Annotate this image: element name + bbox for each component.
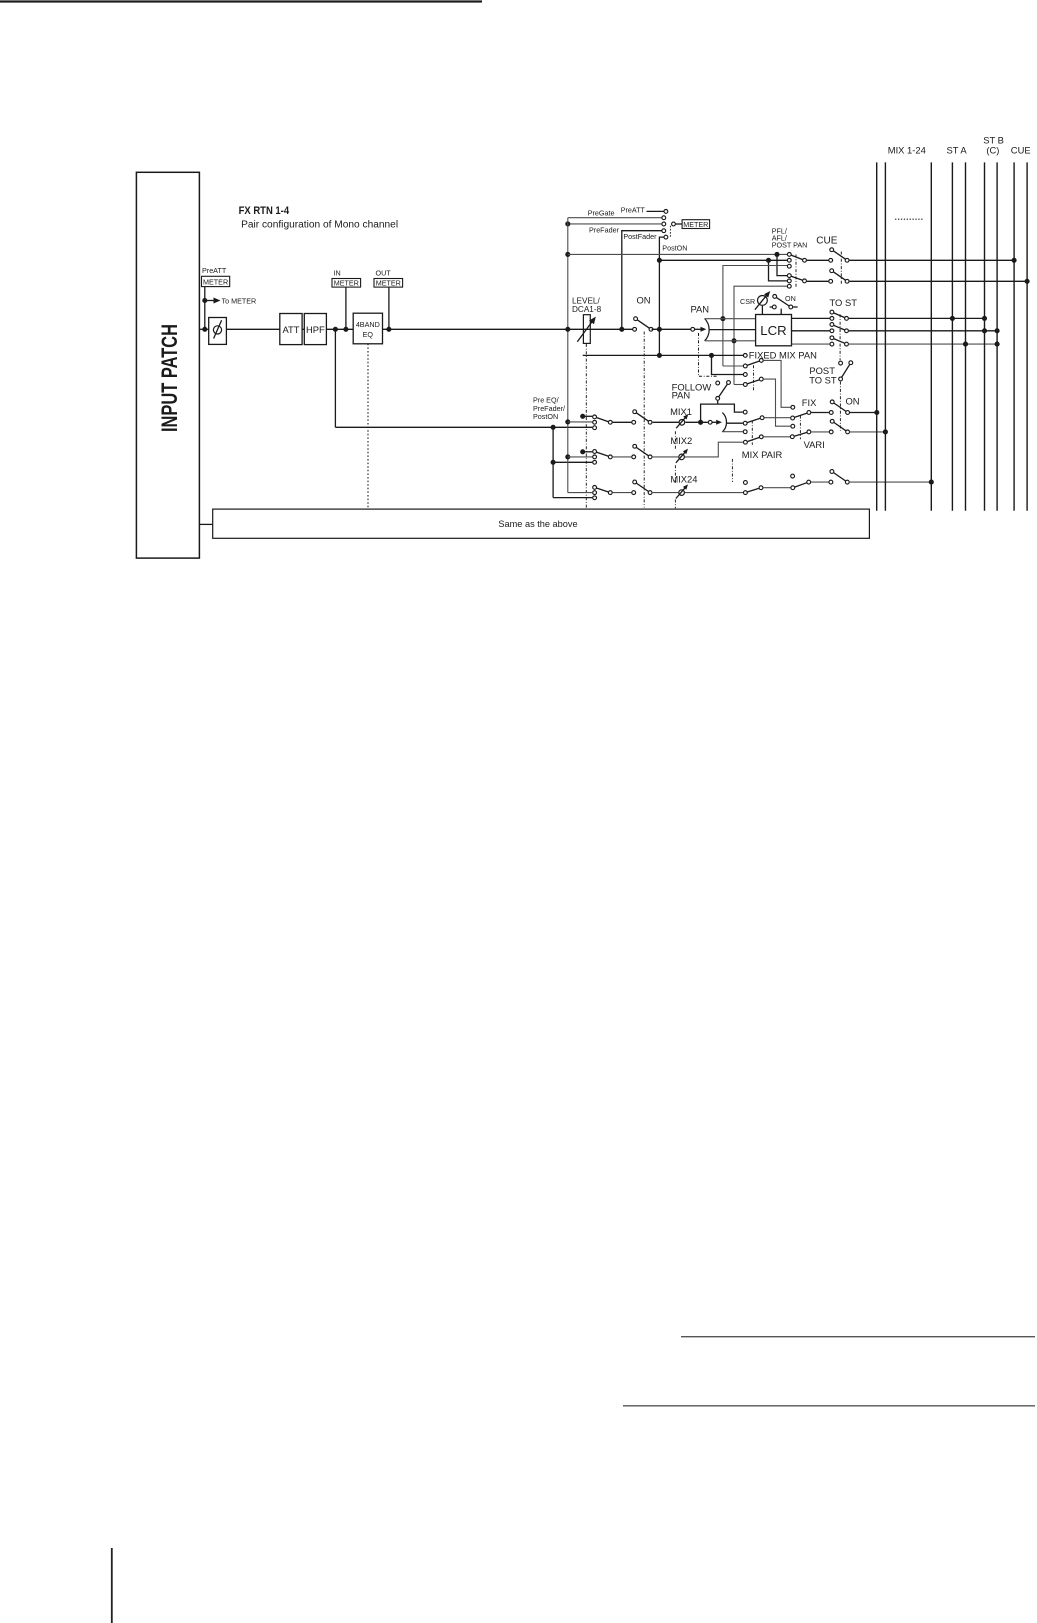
EQ gang dashed xyxy=(367,344,369,509)
wire AFL line xyxy=(659,259,787,261)
mix1 fv arm xyxy=(794,413,807,417)
wire mix1 pan arrow xyxy=(712,420,722,425)
node STA-R xyxy=(963,342,968,347)
label To METER xyxy=(222,296,257,305)
CSR pot xyxy=(755,291,770,310)
mix pair pole lower xyxy=(759,435,763,439)
mix pair pole upper xyxy=(760,416,764,420)
mix24 sel wire xyxy=(613,492,632,494)
wire mix24 to pair xyxy=(685,492,743,494)
svg-text:EQ: EQ xyxy=(363,330,374,339)
post to st arm xyxy=(842,364,850,377)
wire main: patch to phase xyxy=(199,328,208,330)
wire mix2 to pot xyxy=(653,456,679,458)
mix pair gang 2 dotted xyxy=(731,459,733,482)
label PFL/AFL/POST PAN xyxy=(772,226,808,249)
wire CUE upper to bus xyxy=(850,259,1015,261)
svg-text:OUT: OUT xyxy=(376,269,392,278)
wire CSR stem xyxy=(761,306,763,315)
bus line 2 xyxy=(884,162,886,510)
label FIXED MIX PAN xyxy=(749,349,817,360)
mix1 fv gang xyxy=(799,416,801,440)
TO ST pole C xyxy=(845,329,849,333)
node preFader mix1 tap xyxy=(565,419,570,424)
svg-text:METER: METER xyxy=(376,279,401,288)
node to-meter tap xyxy=(202,298,207,303)
svg-text:FIX: FIX xyxy=(802,397,817,408)
svg-text:PostFader: PostFader xyxy=(623,232,657,241)
svg-text:FX RTN 1-4: FX RTN 1-4 xyxy=(239,205,290,217)
METER box 2 xyxy=(682,220,710,229)
mix24 selector xyxy=(593,486,613,500)
mix1 fv pole xyxy=(807,411,811,415)
mix24 pot gang xyxy=(674,500,676,509)
svg-text:PreFader: PreFader xyxy=(589,225,620,234)
svg-text:PAN: PAN xyxy=(672,389,691,400)
PreATT METER box xyxy=(202,276,230,286)
label ST B xyxy=(983,135,1004,146)
METER text 2 xyxy=(683,220,708,229)
svg-text:PostON: PostON xyxy=(662,243,687,252)
OUT METER text xyxy=(376,279,401,288)
label OUT xyxy=(376,269,392,278)
wire mix1 pan out R xyxy=(723,431,743,433)
mix1 fix contact xyxy=(791,405,795,409)
TO ST open C xyxy=(830,323,834,327)
IN METER text xyxy=(334,279,359,288)
wire preEQ column xyxy=(552,427,554,497)
footer rule right 1 xyxy=(681,1336,1035,1338)
label ON xyxy=(637,294,651,305)
mix1 pot xyxy=(676,414,688,428)
wire patch to same box xyxy=(199,523,212,525)
wire preFader to mix1 xyxy=(568,421,593,423)
svg-text:CSR: CSR xyxy=(740,297,755,306)
mix24 pair arm xyxy=(747,488,759,492)
footer rule right 2 xyxy=(623,1405,1035,1407)
wire mix1 to on xyxy=(811,412,829,414)
4BAND EQ box xyxy=(353,313,382,344)
TO ST pole L xyxy=(845,317,849,321)
node patch output xyxy=(202,327,207,332)
label ST A xyxy=(947,144,968,155)
node EQ out xyxy=(386,327,391,332)
mix pair arm upper xyxy=(747,418,760,422)
node mix1 bus xyxy=(874,410,879,415)
label CSR xyxy=(740,297,755,306)
svg-text:ON: ON xyxy=(785,294,796,303)
label VARI xyxy=(804,439,825,450)
wire preEQ to mix2 xyxy=(553,461,592,463)
wire mix24 to on xyxy=(811,481,829,483)
Same as the above text xyxy=(498,519,577,529)
mix2 fix contact xyxy=(791,424,795,428)
svg-text:LCR: LCR xyxy=(760,323,786,338)
wire mix1 to pot xyxy=(653,421,679,423)
svg-text:MIX2: MIX2 xyxy=(670,435,692,446)
mix24 pair contact xyxy=(744,491,748,495)
footer left mark xyxy=(111,1548,113,1623)
wire sel to CUE sw upper xyxy=(807,259,829,261)
label MIX2 xyxy=(670,435,692,446)
svg-text:MIX PAIR: MIX PAIR xyxy=(742,449,783,460)
wire main: ON to PAN xyxy=(652,328,691,330)
fader gang dotted xyxy=(585,344,587,509)
bus line 7 xyxy=(996,162,998,510)
svg-text:To METER: To METER xyxy=(222,296,257,305)
TO ST arm C xyxy=(834,325,845,330)
mix24 fix open xyxy=(791,474,795,478)
wire mix1 bypass xyxy=(701,404,743,422)
wire main: HPF to EQ xyxy=(326,328,353,330)
wire AFL to lower xyxy=(769,260,788,281)
fixed arm lower xyxy=(747,380,759,384)
mix2 pot gang xyxy=(674,465,676,483)
label TO ST xyxy=(830,297,858,308)
node STB-L a xyxy=(982,316,987,321)
mix pair gang dotted xyxy=(751,421,753,445)
CUE gang dotted xyxy=(840,252,842,286)
wire mix2 to bus xyxy=(849,431,885,433)
wire pot to pan xyxy=(685,421,708,423)
fixed arm upper xyxy=(747,361,759,365)
ATT text xyxy=(282,324,299,335)
wire PFL to lower xyxy=(777,254,787,275)
svg-text:ON: ON xyxy=(846,395,860,406)
post to st pole xyxy=(839,377,843,381)
wire mix24 to bus xyxy=(849,481,932,483)
bus line 3 xyxy=(930,162,932,510)
bus dotted continuation xyxy=(895,218,924,220)
node postpanL junction xyxy=(720,316,725,321)
svg-text:METER: METER xyxy=(683,220,708,229)
mix24 pair open xyxy=(744,481,748,485)
svg-text:TO ST: TO ST xyxy=(830,297,858,308)
wire csr ON stub xyxy=(770,306,798,308)
node bus PFL tap xyxy=(565,252,570,257)
bus line 6 xyxy=(984,162,986,510)
node CUE L bus xyxy=(1012,258,1017,263)
wire mix1 to bus xyxy=(849,412,876,414)
mix1 ON switch xyxy=(829,400,849,414)
svg-text:4BAND: 4BAND xyxy=(356,320,380,329)
mix24 pair pole xyxy=(759,486,763,490)
label (C) xyxy=(986,144,999,155)
svg-text:POST PAN: POST PAN xyxy=(772,241,808,250)
post to st gang lower xyxy=(839,382,841,431)
node postON mix1 tap xyxy=(580,414,585,419)
mix2 pot xyxy=(676,449,688,463)
wire main: phase to ATT xyxy=(226,328,279,330)
svg-text:VARI: VARI xyxy=(804,439,825,450)
PAN gang dotted xyxy=(699,333,718,376)
TO ST contact L xyxy=(830,317,834,321)
gray bus preFader xyxy=(567,218,569,493)
wire mix2 to pair xyxy=(685,442,743,457)
wire mix24 to pot xyxy=(653,492,679,494)
follow pan throw xyxy=(727,381,731,385)
wire IN meter drop xyxy=(345,287,347,329)
ON switch xyxy=(633,317,653,331)
mix24 ON switch xyxy=(829,470,849,484)
node PFL branch xyxy=(774,252,779,257)
wire fixed mix pan line xyxy=(583,354,743,356)
svg-text:ST A: ST A xyxy=(947,144,968,155)
follow pan pole xyxy=(716,397,720,401)
mix2 sel wire xyxy=(613,456,632,458)
meter sel pole xyxy=(672,222,676,226)
phase box xyxy=(209,318,227,345)
title FX RTN 1-4 xyxy=(239,205,290,217)
INPUT PATCH label xyxy=(157,324,182,432)
mix1 pan circle xyxy=(708,420,712,424)
node postON drop xyxy=(657,353,662,358)
wire fixed L feed xyxy=(723,365,743,367)
svg-text:PreGate: PreGate xyxy=(588,209,615,218)
svg-text:MIX1: MIX1 xyxy=(670,406,692,417)
TO ST open R xyxy=(830,336,834,340)
wire LCR R out xyxy=(792,343,830,345)
node STA-L xyxy=(950,316,955,321)
svg-text:PAN: PAN xyxy=(691,303,710,314)
IN METER box xyxy=(332,279,361,288)
svg-text:CUE: CUE xyxy=(1011,144,1031,155)
mix pair contact direct xyxy=(744,440,748,444)
wire postON to mix2 xyxy=(583,451,593,453)
svg-text:FIXED MIX PAN: FIXED MIX PAN xyxy=(749,349,817,360)
fixed contact 1 xyxy=(743,364,747,368)
fader rect xyxy=(583,315,590,344)
wire pair out even xyxy=(764,436,790,438)
CUE switch lower xyxy=(829,269,849,283)
label CUE bus xyxy=(1011,144,1031,155)
top rule bar xyxy=(0,0,482,2)
label IN xyxy=(334,269,341,278)
label PAN xyxy=(691,303,710,314)
mix pair contact R xyxy=(743,430,747,434)
wire postON to mix1 xyxy=(583,415,593,417)
svg-text:IN: IN xyxy=(334,269,341,278)
wire fix out odd xyxy=(764,360,791,407)
TO ST contact R xyxy=(830,342,834,346)
wire OUT meter drop xyxy=(388,287,390,329)
mix pair arm lower xyxy=(747,437,759,441)
node mix2 bus xyxy=(883,429,888,434)
label POST TO ST xyxy=(809,365,837,385)
post to st contact xyxy=(839,361,843,365)
wire pan arrow xyxy=(695,327,707,332)
wire preGate line xyxy=(568,217,662,219)
HPF box xyxy=(304,314,326,345)
mix1 sel wire xyxy=(613,421,632,423)
wire pan L to LCR xyxy=(705,318,756,320)
svg-text:METER: METER xyxy=(203,278,228,287)
wire preFader pickup xyxy=(622,231,662,330)
follow pan contact xyxy=(716,381,720,385)
node postON mix2 tap xyxy=(580,449,585,454)
mix24 pre switch xyxy=(632,480,652,494)
CUE switch upper xyxy=(829,248,849,262)
node meter common tap xyxy=(565,221,570,226)
label MIX PAIR xyxy=(742,449,783,460)
svg-text:PreATT: PreATT xyxy=(621,205,646,214)
wire mix2 to on xyxy=(811,431,829,433)
mix2 fv pole xyxy=(807,430,811,434)
PFL selector upper xyxy=(787,253,806,269)
mix2 pre switch xyxy=(632,444,652,458)
svg-text:PreATT: PreATT xyxy=(202,266,227,275)
wire ST R row xyxy=(849,343,997,345)
svg-text:(C): (C) xyxy=(986,144,999,155)
wire preEQ drop xyxy=(334,329,336,427)
mix1 vari contact xyxy=(791,416,795,420)
wire preEQ feed xyxy=(335,426,592,428)
node postpanR junction xyxy=(731,338,736,343)
wire fix out even xyxy=(764,379,791,426)
mix1 pot gang xyxy=(674,431,676,450)
TO ST open L xyxy=(830,310,834,314)
node mix1 bypass tap xyxy=(698,420,703,425)
TO ST arm R xyxy=(834,339,845,344)
LCR text xyxy=(760,323,786,338)
ATT box xyxy=(280,314,302,345)
wire csr ON tick xyxy=(780,309,782,315)
mix pair contact byp xyxy=(743,410,747,414)
node postON AFL tap xyxy=(657,258,662,263)
phase symbol xyxy=(213,320,221,338)
node IN meter tap xyxy=(343,327,348,332)
csr ON arm xyxy=(776,297,789,306)
wire mix24 pair out xyxy=(763,487,790,489)
wire postpanL line xyxy=(723,266,787,367)
wire ST L row xyxy=(849,317,985,319)
meter sel contact PreFader xyxy=(662,229,666,233)
svg-text:MIX24: MIX24 xyxy=(670,474,697,485)
svg-text:MIX 1-24: MIX 1-24 xyxy=(888,144,926,155)
svg-text:METER: METER xyxy=(334,279,359,288)
wire fixed R feed xyxy=(734,384,743,386)
bus line 4 xyxy=(951,162,953,510)
node postON main tap xyxy=(657,327,662,332)
svg-text:TO ST: TO ST xyxy=(809,375,837,386)
node STB-L b xyxy=(982,328,987,333)
node preEQ branch mix2 xyxy=(551,460,556,465)
wire follow pan stem xyxy=(717,401,719,404)
csr ON circle B xyxy=(789,305,793,309)
node STB-R b xyxy=(995,342,1000,347)
csr ON circle A xyxy=(773,295,777,299)
PAN input circle xyxy=(691,327,695,331)
post to st throw xyxy=(849,361,853,365)
node mix24 bus xyxy=(929,480,934,485)
node preFader mix2 tap xyxy=(565,454,570,459)
fixed contact 3 xyxy=(743,383,747,387)
OUT METER box xyxy=(374,279,403,288)
wire CUE lower to bus xyxy=(850,280,1028,282)
mix2 vari contact xyxy=(790,435,794,439)
label FOLLOW PAN xyxy=(672,381,712,400)
wire postFader pickup xyxy=(659,237,663,355)
mix2 fv arm xyxy=(794,432,807,436)
node CUE R bus xyxy=(1025,279,1030,284)
Same as the above box xyxy=(213,509,870,538)
bus line 8 xyxy=(1013,162,1015,510)
node fixed branch xyxy=(709,353,714,358)
mix24 fv arm xyxy=(795,483,807,487)
wire PFL line xyxy=(568,253,787,255)
wire LCR L out xyxy=(792,317,830,319)
mix24 fv pole xyxy=(807,480,811,484)
label PreATT2 xyxy=(621,205,646,214)
label MIX24 xyxy=(670,474,697,485)
meter sel contact PreGate xyxy=(662,216,666,220)
TO ST arm L xyxy=(834,313,845,318)
wire pan R to LCR xyxy=(705,340,756,342)
bus line 1 xyxy=(876,162,878,510)
wire ATT-HPF xyxy=(302,328,304,330)
HPF text xyxy=(306,324,325,335)
PFL gang dotted xyxy=(795,255,797,289)
label PostFader xyxy=(623,232,657,241)
wire pair out odd xyxy=(764,417,790,419)
meter sel contact common xyxy=(662,222,666,226)
label MIX1 xyxy=(670,406,692,417)
svg-text:Same as the above: Same as the above xyxy=(498,519,577,529)
node preEQ branch mix1 xyxy=(551,425,556,430)
bus line 5 xyxy=(965,162,967,510)
label PreFader xyxy=(589,225,620,234)
mix1 selector xyxy=(593,415,613,430)
wire preATT stub xyxy=(647,210,664,212)
meter sel contact PostFader xyxy=(664,235,668,239)
label ON csr xyxy=(785,294,796,303)
svg-text:DCA1-8: DCA1-8 xyxy=(572,305,602,314)
fixed pole upper xyxy=(759,359,763,363)
wire preEQ to mix24 xyxy=(553,497,592,499)
TO ST pole R xyxy=(845,342,849,346)
wire postpanR line xyxy=(734,286,787,384)
follow pan arm xyxy=(719,384,728,397)
label FIX xyxy=(802,397,817,408)
fixed pole lower xyxy=(759,377,763,381)
wire meter drop xyxy=(204,287,206,330)
wire main: EQ to fader xyxy=(383,328,633,330)
svg-text:PostON: PostON xyxy=(533,412,558,421)
INPUT PATCH box xyxy=(136,172,199,558)
wire pan C to LCR xyxy=(709,329,756,331)
svg-text:Pair configuration of Mono cha: Pair configuration of Mono channel xyxy=(241,220,398,231)
label CUE xyxy=(816,235,837,246)
label LEVEL/DCA1-8 xyxy=(572,297,602,314)
title pair configuration xyxy=(241,220,398,231)
label Pre EQ/PreFader/PostON xyxy=(533,396,565,421)
TO ST contact C xyxy=(830,329,834,333)
node preFader tap xyxy=(619,327,624,332)
label MIX 1-24 xyxy=(888,144,926,155)
mix2 selector xyxy=(593,450,613,465)
fader arrow xyxy=(577,317,596,342)
svg-text:HPF: HPF xyxy=(306,324,325,335)
wire pole to METER xyxy=(676,223,682,225)
mix1 pre switch xyxy=(632,410,652,424)
mix pair contact L xyxy=(743,421,747,425)
wire preFader to mix2 xyxy=(568,456,593,458)
label ON mix xyxy=(846,395,860,406)
PreATT METER text xyxy=(203,278,228,287)
EQ text xyxy=(356,320,380,339)
MIX1 PAN crescent xyxy=(722,413,726,432)
PAN crescent xyxy=(705,319,710,341)
